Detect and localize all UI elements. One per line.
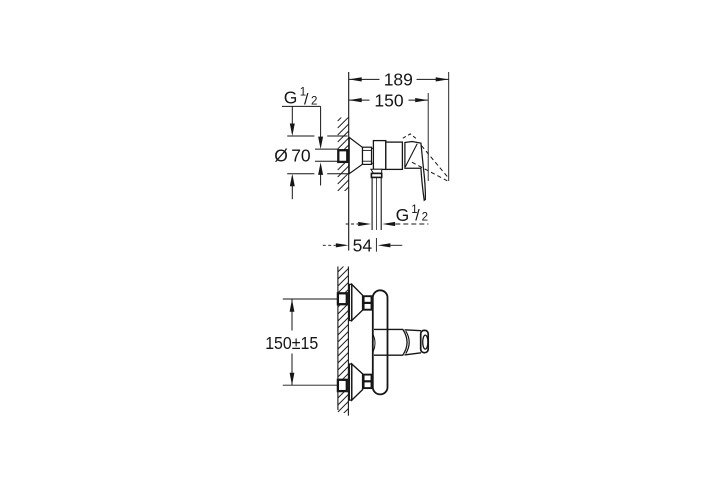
dimension 189: [349, 78, 448, 80]
wall hatch (side view): [338, 110, 349, 198]
lower union nut behind wall (front view): [338, 380, 347, 391]
outlet step under body: [371, 169, 382, 173]
svg-text:189: 189: [384, 70, 413, 90]
handle body top/bottom: [405, 329, 422, 332]
diam 70 upper line: [287, 135, 314, 137]
mixer body capsule (front view): [373, 290, 388, 394]
dimension leader A (diam 70, outside arrows): [291, 106, 293, 133]
outlet pipe centerline / extension: [375, 178, 377, 230]
wall thread upper line: [315, 148, 338, 150]
leader underline for G 1/2: [282, 105, 321, 107]
dimension 150 +/- 15 extension lines: [283, 298, 338, 300]
dome internal diagonal: [405, 144, 417, 167]
union nut behind wall (side view): [338, 150, 347, 162]
svg-text:70: 70: [291, 146, 311, 166]
svg-text:G: G: [396, 205, 410, 225]
svg-text:2: 2: [311, 95, 317, 107]
outlet G 1/2 dimension arrows: [346, 223, 358, 225]
wall face line / shared extension line: [348, 72, 350, 251]
lower escutcheon flange: [349, 364, 351, 400]
lower hex nut (front view): [364, 375, 372, 389]
wall thread lower line: [315, 160, 338, 162]
wall strip left line: [337, 267, 339, 411]
dimension 150 +/- 15 vertical line with arrows: [291, 299, 293, 330]
connector ring: [372, 148, 374, 163]
extension line for 189 (right): [448, 72, 450, 181]
dashed handle travel line 1: [421, 146, 448, 179]
dimension leader B (G 1/2 wall thread, outside arrows): [320, 106, 322, 146]
svg-text:54: 54: [353, 236, 373, 256]
upper escutcheon cone: [352, 284, 363, 320]
hex connection nut (side view): [363, 147, 372, 164]
dimension 150: [349, 99, 428, 101]
svg-text:150±15: 150±15: [265, 333, 318, 353]
outlet pipe walls: [371, 178, 373, 231]
svg-text:/: /: [304, 91, 309, 108]
svg-text:150: 150: [374, 90, 403, 110]
upper union nut behind wall (front view): [338, 293, 347, 304]
valve body block 1: [373, 141, 385, 170]
dashed handle raised position (top arc): [403, 134, 418, 140]
lower escutcheon cone: [352, 364, 363, 400]
handle neck lines: [374, 328, 403, 330]
upper hex nut (front view): [364, 296, 372, 310]
svg-text:Ø: Ø: [274, 146, 288, 166]
svg-text:G: G: [284, 87, 298, 107]
svg-text:2: 2: [422, 212, 428, 224]
wall strip hatch (front view): [338, 262, 349, 420]
dashed handle travel line 2: [412, 162, 447, 181]
cartridge dome and lever handle (solid): [405, 142, 426, 201]
wall strip right line (wall face): [347, 267, 349, 416]
diam 70 lower line: [287, 173, 314, 175]
outlet collar: [371, 173, 381, 177]
upper escutcheon flange: [349, 284, 351, 320]
escutcheon cone (side view): [349, 137, 362, 173]
dimension 54: [323, 244, 336, 246]
extension line for 150 (right): [427, 93, 429, 181]
svg-text:/: /: [415, 208, 420, 225]
handle cone arcs: [403, 329, 407, 355]
handle end cap inner ellipse: [423, 335, 428, 349]
valve body block 2: [386, 142, 403, 169]
socket ellipse on capsule: [373, 335, 375, 351]
handle end cap: [421, 330, 429, 352]
